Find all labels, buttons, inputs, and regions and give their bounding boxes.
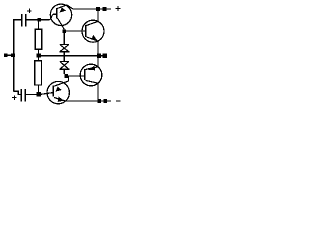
label plus supply	[116, 6, 121, 11]
wire mid rail	[41, 55, 97, 57]
transistor Q1 (PNP top-left)	[50, 4, 73, 29]
terminal S6	[103, 99, 107, 103]
node J5	[64, 74, 68, 78]
resistor R1	[38, 22, 40, 30]
terminal S2	[103, 7, 107, 11]
wire Q2 emitter to output	[97, 41, 99, 56]
wire top rail	[73, 8, 112, 10]
wire J5 to Q4 base	[68, 75, 84, 77]
diode D1	[59, 33, 69, 56]
node S1	[96, 7, 100, 11]
wire output stub	[101, 55, 103, 57]
wire input vertical	[14, 20, 22, 92]
C2 plus sign	[12, 95, 16, 99]
C1 plus sign	[27, 9, 31, 13]
transistor Q3 (NPN bottom-left)	[47, 76, 69, 104]
transistor Q2 (NPN top-right)	[82, 20, 104, 42]
capacitor C1	[22, 14, 26, 26]
node J2	[37, 54, 41, 58]
wire J4 to Q2 base	[66, 30, 85, 32]
node J4	[62, 29, 66, 33]
resistor R2	[38, 58, 40, 61]
input terminal square	[4, 54, 7, 57]
wire J3 to Q3 base	[41, 93, 53, 95]
terminal S4 output	[103, 54, 107, 58]
node S3 output junction	[97, 54, 101, 58]
wire input stub	[8, 54, 12, 56]
wire jog to C2	[14, 91, 22, 94]
node input junction	[11, 53, 15, 57]
node S5	[97, 99, 101, 103]
label minus supply	[116, 100, 121, 102]
transistor Q4 (PNP bottom-right)	[80, 64, 102, 86]
wire Q4 emitter to output	[97, 56, 99, 67]
wire Q2 collector to rail	[97, 9, 99, 21]
wire J1 to Q1 base (jog up)	[41, 14, 56, 20]
wire bottom rail	[66, 100, 111, 102]
node J1	[37, 18, 41, 22]
diode D2	[59, 56, 69, 74]
wire Q4 collector to bottom rail	[97, 83, 99, 101]
capacitor C2	[21, 89, 25, 101]
node J3	[37, 92, 41, 96]
